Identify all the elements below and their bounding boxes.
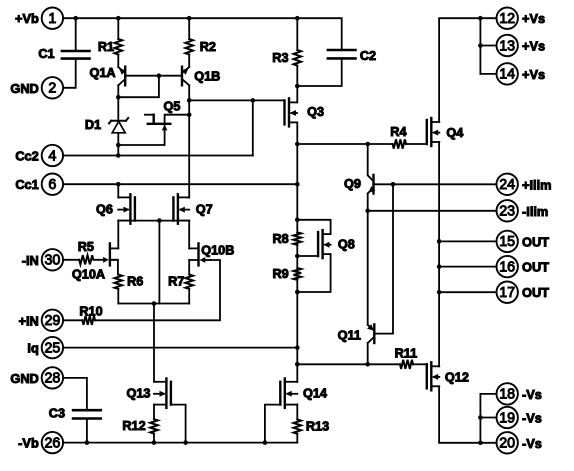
pin 30 -IN (42, 249, 63, 270)
wire rail to Q13 (153, 304, 155, 382)
resistor R7 (185, 275, 193, 289)
wire Q6 drain from Cc1 (117, 184, 119, 197)
svg-text:R11: R11 (395, 346, 418, 360)
wire D1 anode (117, 133, 119, 156)
wire Q7 source column (188, 221, 190, 249)
node C3 junction (85, 440, 90, 445)
transistor Q5 (148, 123, 171, 125)
svg-text:R8: R8 (272, 232, 288, 246)
wire -Vs pin19 tap (480, 417, 496, 419)
capacitor C2 (328, 49, 356, 52)
wire Q8 source (297, 254, 330, 292)
node Q1B collector junctions (187, 98, 192, 103)
pin 28 GND (42, 367, 63, 388)
transistor Q7 (177, 194, 179, 223)
wire C1 to GND pin 2 (63, 59, 76, 88)
wire Q5 source (118, 125, 164, 145)
node Iq junction (295, 345, 300, 350)
svg-text:Q8: Q8 (338, 238, 355, 252)
svg-text:Q10A: Q10A (72, 267, 105, 281)
transistor Q12 (430, 362, 432, 390)
svg-text:GND: GND (10, 81, 38, 96)
transistor Q3 (288, 98, 290, 126)
wire Q13 gate lead (171, 405, 186, 443)
pin 2 GND (42, 77, 63, 98)
node Q11 collector junction (365, 362, 370, 367)
wire -Vb rail (63, 442, 297, 444)
node Cc1 junctions (116, 182, 121, 187)
wire Q6 Q7 tie (118, 220, 189, 222)
svg-text:-Vs: -Vs (522, 436, 542, 451)
wire R7 bottom (188, 289, 190, 304)
svg-text:C3: C3 (49, 406, 65, 420)
svg-text:C2: C2 (360, 49, 376, 63)
svg-text:Q12: Q12 (445, 370, 469, 384)
svg-text:-IN: -IN (22, 253, 39, 268)
wire -Vs bus (479, 394, 481, 443)
wire Q14 source (296, 405, 298, 420)
wire C2 bottom (297, 58, 341, 86)
pin 15 OUT (497, 231, 518, 252)
wire OUT pin16 tap (439, 266, 496, 268)
wire rail R8 R9 (296, 245, 298, 268)
wire GND pin 28 to C3 (63, 378, 87, 410)
resistor R13 (294, 419, 302, 433)
resistor R9 (294, 268, 302, 280)
wire OUT pin15 tap (439, 240, 496, 242)
pin 23 -Ilim (497, 200, 518, 221)
svg-text:-Vb: -Vb (18, 436, 39, 451)
pin 26 -Vb (42, 432, 63, 453)
node R3 C2 junction (295, 84, 300, 89)
svg-text:R13: R13 (306, 420, 329, 434)
resistor R4 (393, 139, 406, 148)
svg-text:Q10B: Q10B (201, 243, 234, 257)
node +Vs bus junction (478, 16, 483, 21)
pin 19 -Vs (497, 407, 518, 428)
svg-text:Q6: Q6 (96, 202, 113, 216)
wire Q12 source to -Vs (439, 386, 496, 443)
svg-text:R2: R2 (200, 40, 216, 54)
wire +Vs bus (479, 18, 481, 74)
wire R11 to Q12 gate (413, 363, 427, 365)
wire Q13 source (153, 405, 155, 420)
svg-text:6: 6 (48, 177, 56, 193)
svg-text:Cc1: Cc1 (15, 177, 38, 192)
pin 1 +Vb (42, 8, 63, 29)
wire Q6 source column (117, 221, 119, 249)
pin 17 OUT (497, 282, 518, 303)
svg-text:R4: R4 (390, 125, 406, 139)
transistor Q6 (129, 194, 131, 223)
wire R4 row left (297, 143, 392, 145)
wire R13 bottom (296, 434, 298, 443)
resistor R1 (115, 39, 123, 55)
wire Q11 collector (367, 343, 369, 364)
wire OUT pin17 tap (439, 291, 496, 293)
transistor Q14 (284, 379, 286, 408)
transistor Q1A (124, 67, 126, 86)
node rail junction (152, 301, 157, 306)
wire R5 to Q10A gate (93, 259, 98, 261)
wire Q9 emitter column (367, 194, 369, 325)
pin 6 Cc1 (42, 174, 63, 195)
wire tie riser (158, 221, 160, 304)
svg-text:R9: R9 (272, 267, 288, 281)
svg-text:18: 18 (499, 387, 515, 403)
wire Q10A source (110, 260, 118, 275)
capacitor C3 (73, 409, 101, 412)
svg-text:20: 20 (499, 436, 515, 452)
pin 14 +Vs (497, 63, 518, 84)
pin 24 +Ilim (497, 174, 518, 195)
wire Q8 gate lead (297, 255, 318, 257)
wire +IN to R10 (63, 319, 82, 321)
wire R2 top (188, 18, 190, 39)
wire Q8 drain (297, 220, 330, 234)
pin 13 +Vs (497, 35, 518, 56)
svg-text:Cc2: Cc2 (15, 149, 38, 164)
svg-text:23: 23 (499, 204, 515, 220)
node -Ilim junction (365, 209, 370, 214)
wire R3 top (296, 18, 298, 50)
wire -IN to R5 (63, 259, 79, 261)
wire R11 row left (297, 363, 400, 365)
node tie junction (157, 218, 162, 223)
transistor Q9 (372, 175, 374, 194)
wire R2 to Q1B emitter (188, 55, 190, 68)
node base junction (157, 73, 162, 78)
svg-text:14: 14 (499, 67, 515, 83)
wire OUT rail (438, 142, 440, 366)
svg-text:25: 25 (44, 340, 60, 356)
pin 20 -Vs (497, 432, 518, 453)
svg-text:GND: GND (10, 371, 38, 386)
wire R6 bottom (117, 289, 119, 304)
wire Q9 base row (374, 183, 497, 185)
wire Q10B source column (188, 260, 190, 275)
wire R6 R7 rail (118, 303, 189, 305)
svg-text:D1: D1 (85, 118, 101, 132)
svg-text:12: 12 (499, 11, 515, 27)
wire C3 bottom (86, 419, 88, 443)
svg-text:16: 16 (499, 259, 515, 275)
svg-text:-Vs: -Vs (522, 387, 542, 402)
wire R1 to Q1A emitter (117, 55, 119, 68)
svg-text:Q13: Q13 (127, 386, 151, 400)
svg-text:Q14: Q14 (303, 386, 327, 400)
transistor Q8 (321, 230, 323, 258)
wire Q1B collector column (188, 85, 190, 197)
transistor Q4 (430, 118, 432, 146)
wire R12 bottom (153, 434, 155, 443)
resistor R11 (400, 360, 413, 369)
svg-text:R7: R7 (168, 275, 184, 289)
svg-text:Q1A: Q1A (89, 66, 115, 80)
wire R10 to Q10B gate (95, 260, 220, 320)
svg-text:R6: R6 (127, 275, 143, 289)
svg-text:R10: R10 (79, 305, 102, 319)
svg-text:13: 13 (499, 38, 515, 54)
wire C1 riser (75, 18, 77, 51)
svg-text:+IN: +IN (19, 313, 39, 328)
transistor Q1B (181, 67, 183, 86)
wire mirror riser (118, 76, 159, 98)
svg-text:-Ilim: -Ilim (522, 204, 548, 219)
wire Q11 base riser (374, 184, 393, 333)
resistor R8 (294, 232, 302, 245)
svg-text:R3: R3 (272, 51, 288, 65)
pin 29 +IN (42, 310, 63, 331)
svg-text:+Vb: +Vb (15, 11, 39, 26)
svg-text:+Vs: +Vs (522, 39, 545, 54)
node -Vb rail taps (152, 440, 157, 445)
wire +Vb top rail (63, 18, 342, 50)
node D1 junction (116, 143, 121, 148)
svg-text:15: 15 (499, 234, 515, 250)
node Cc2 riser junction (251, 98, 256, 103)
svg-text:OUT: OUT (522, 234, 549, 249)
svg-text:Q4: Q4 (446, 126, 463, 140)
resistor R10 (82, 316, 95, 325)
svg-text:4: 4 (48, 148, 56, 164)
pin 18 -Vs (497, 383, 518, 404)
wire Q1A collector (117, 85, 119, 120)
capacitor C1 (62, 50, 90, 53)
resistor R5 (79, 255, 93, 264)
wire Q1A Q1B bases (125, 75, 182, 77)
wire Cc2 riser (252, 100, 254, 155)
svg-text:Q7: Q7 (196, 202, 213, 216)
svg-text:C1: C1 (38, 47, 54, 61)
wire R1 top (117, 18, 119, 39)
svg-text:Q11: Q11 (338, 328, 361, 342)
resistor R3 (294, 50, 302, 66)
wire Cc2 row (63, 155, 253, 157)
transistor Q13 (165, 379, 167, 408)
svg-text:24: 24 (499, 177, 515, 193)
svg-text:R5: R5 (78, 240, 94, 254)
pin 16 OUT (497, 256, 518, 277)
wire -Vs pin18 tap (480, 393, 496, 395)
node -Vs bus junctions (478, 441, 483, 446)
svg-text:Q1B: Q1B (194, 69, 220, 83)
svg-text:26: 26 (44, 435, 60, 451)
transistor Q10B (197, 243, 199, 265)
node Q9 collector junction (365, 142, 370, 147)
svg-text:17: 17 (499, 285, 515, 301)
node central rail taps upper (295, 142, 300, 147)
svg-text:+Vs: +Vs (522, 11, 545, 26)
wire central rail upper (296, 122, 298, 232)
svg-text:Q9: Q9 (344, 177, 361, 191)
node top rail junctions (73, 16, 78, 21)
svg-text:+Ilim: +Ilim (522, 177, 552, 192)
svg-text:1: 1 (48, 11, 56, 27)
svg-text:OUT: OUT (522, 285, 549, 300)
wire Q9 collector riser (367, 144, 369, 175)
wire +Vs pin13 tap (480, 45, 496, 47)
svg-text:29: 29 (44, 313, 60, 329)
svg-text:Q3: Q3 (307, 105, 324, 119)
wire Q5 gate stub (145, 114, 154, 116)
svg-text:OUT: OUT (522, 260, 549, 275)
node Q1A collector tap (116, 95, 121, 100)
diode D1 (111, 120, 126, 122)
wire Q14 gate lead (265, 405, 280, 443)
resistor R12 (150, 419, 158, 433)
wire -Ilim row (368, 210, 497, 212)
svg-text:R12: R12 (122, 419, 145, 433)
transistor Q10A (109, 243, 111, 265)
wire Cc1 row (63, 183, 297, 185)
pin 25 Iq (42, 337, 63, 358)
node Q8 gate junction (295, 254, 300, 259)
node Q9 base junction (391, 182, 396, 187)
wire Q1B collector to Q3 gate (189, 99, 284, 101)
svg-text:Iq: Iq (27, 341, 38, 356)
svg-text:2: 2 (48, 81, 56, 97)
svg-text:Q5: Q5 (164, 100, 181, 114)
svg-text:28: 28 (44, 371, 60, 387)
svg-text:30: 30 (44, 253, 60, 269)
node rail lower taps (295, 290, 300, 295)
pin 4 Cc2 (42, 145, 63, 166)
wire R4 to Q4 gate (406, 143, 427, 145)
svg-text:R1: R1 (98, 40, 114, 54)
svg-text:-Vs: -Vs (522, 411, 542, 426)
svg-text:+Vs: +Vs (522, 67, 545, 82)
wire Iq row (63, 347, 297, 349)
node OUT taps (437, 239, 442, 244)
pin 12 +Vs (497, 8, 518, 29)
svg-text:19: 19 (499, 410, 515, 426)
wire Q4 drain to +Vs (439, 18, 496, 122)
wire R3 bottom to Q3 drain (296, 66, 298, 103)
resistor R2 (185, 39, 193, 55)
resistor R6 (115, 275, 123, 289)
wire Q5 drain (165, 115, 190, 124)
wire rail lower (296, 280, 298, 382)
wire +Vs pin14 tap (480, 73, 496, 75)
transistor Q11 (373, 324, 375, 343)
